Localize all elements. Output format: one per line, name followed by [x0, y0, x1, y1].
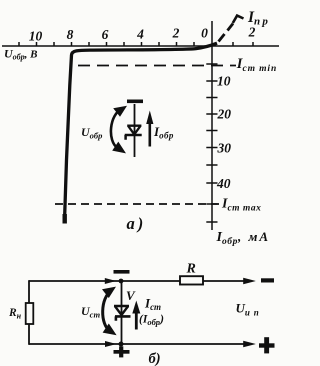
vertical axis tick labels: [216, 74, 231, 192]
arrowhead to minus terminal: [243, 278, 256, 284]
wire top (б): [29, 280, 250, 282]
vertical axis I_обр: [206, 21, 217, 230]
svg-text:а): а): [127, 214, 147, 233]
zener diode V (б): [114, 281, 131, 344]
dashed level line I_ст max: [55, 203, 219, 205]
svg-text:б): б): [149, 351, 161, 366]
zener diode VD (diagram а): [125, 104, 142, 157]
plus terminal: [259, 343, 275, 347]
svg-text:8: 8: [67, 27, 74, 42]
minus polarity mark (diagram а): [127, 100, 143, 104]
svg-text:6: 6: [102, 27, 109, 42]
plus polarity mark at bottom node: [114, 350, 130, 354]
svg-text:20: 20: [217, 107, 232, 122]
svg-text:30: 30: [217, 141, 232, 156]
resistor R: [180, 276, 203, 284]
current arrowhead on top wire: [105, 278, 116, 284]
svg-text:2: 2: [172, 26, 180, 41]
node bottom junction: [119, 342, 124, 347]
wire bottom (б): [29, 343, 250, 345]
minus polarity mark at top node: [114, 270, 130, 274]
wire left (б): [28, 280, 30, 345]
current arrow I_ст (б): [135, 311, 138, 330]
svg-text:40: 40: [216, 176, 231, 191]
current arrowhead on bottom wire: [105, 341, 117, 347]
current arrow I_обр (diagram а): [149, 121, 152, 147]
svg-text:10: 10: [217, 74, 231, 89]
horizontal axis tick labels: [29, 25, 256, 44]
horizontal axis U_обр: [2, 42, 279, 47]
svg-text:V: V: [126, 288, 136, 303]
arrowhead to plus terminal: [243, 341, 256, 347]
svg-text:0: 0: [201, 26, 208, 41]
svg-text:R: R: [186, 262, 196, 277]
svg-text:4: 4: [136, 27, 144, 42]
curved arrow U_обр: [111, 110, 122, 149]
node top junction: [119, 279, 124, 284]
curved arrow U_ст: [103, 292, 111, 332]
dashed level line I_ст min: [78, 65, 236, 67]
minus terminal: [261, 278, 274, 282]
resistor R_н: [26, 303, 34, 324]
forward characteristic dashed curve: [219, 24, 234, 42]
zener reverse characteristic curve: [65, 43, 217, 218]
svg-text:10: 10: [29, 29, 43, 44]
